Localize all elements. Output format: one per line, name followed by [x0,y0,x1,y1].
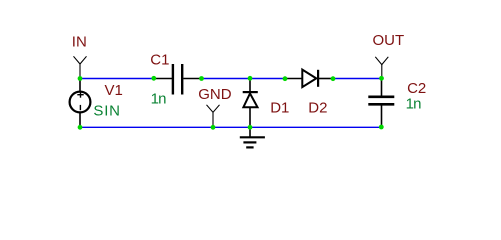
node dot C1 right [199,76,204,81]
wire top segment C1 to D2 [201,78,285,80]
svg-text:C1: C1 [150,52,169,69]
svg-text:SIN: SIN [93,103,120,120]
svg-text:1n: 1n [406,96,422,113]
node dot GND stem [211,125,216,130]
terminal IN [74,56,87,78]
svg-text:GND: GND [198,86,232,103]
voltage source V1 [70,79,91,128]
svg-text:1n: 1n [151,91,167,108]
capacitor C2 [368,79,394,128]
node dot V1 bottom [78,125,83,130]
node dot D2 left [283,76,288,81]
wire top segment V1 to C1 [80,78,154,80]
node dot D1 top [248,76,253,81]
svg-text:C2: C2 [407,80,426,97]
terminal OUT [375,57,388,79]
ground symbol [240,127,265,147]
capacitor C1 [154,64,201,95]
wire bottom rail [80,126,382,128]
node dot D2 right [331,76,336,81]
svg-text:V1: V1 [105,82,123,99]
svg-text:D1: D1 [270,99,289,116]
diode D2 [285,70,333,88]
svg-text:D2: D2 [308,99,327,116]
node dot OUT / C2 top [379,76,384,81]
node dot C1 left [151,76,156,81]
node dot D1 bottom / ground [248,125,253,130]
svg-text:OUT: OUT [373,32,405,49]
node dot V1 top [78,76,83,81]
node dot C2 bottom [379,125,384,130]
wire top segment D2 to C2 [333,78,382,80]
diode D1 [243,79,258,128]
terminal GND [207,105,220,128]
svg-text:IN: IN [72,33,87,50]
